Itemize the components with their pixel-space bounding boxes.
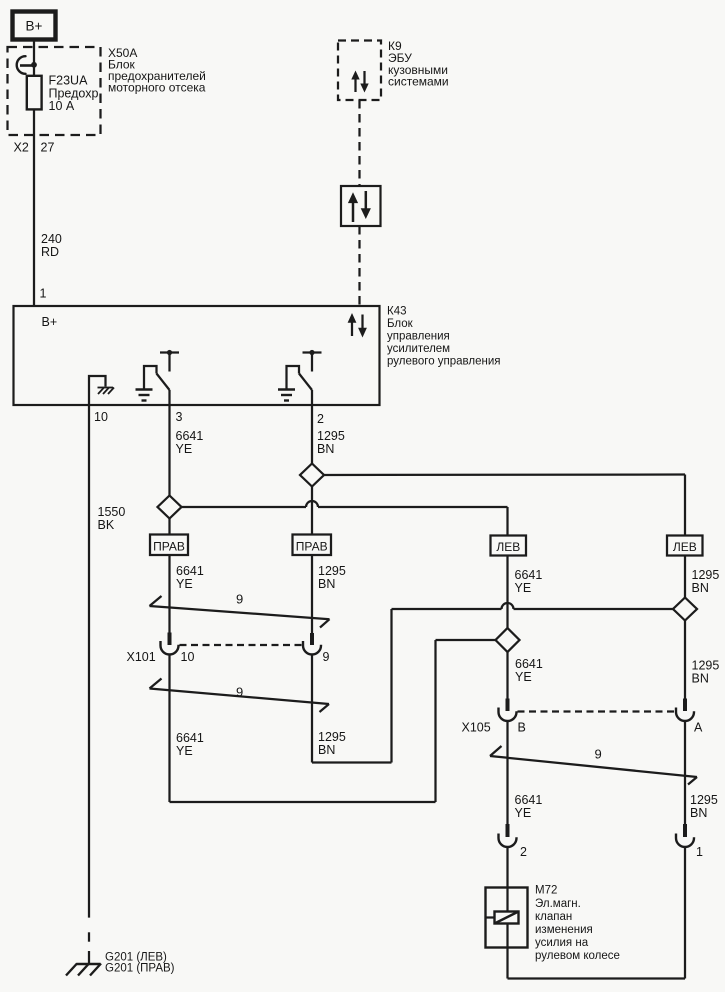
internal driver switch at pin 3 <box>136 350 180 405</box>
wire 240 RD fuse to K43 pin 1 <box>33 109 35 306</box>
svg-text:ПРАВ: ПРАВ <box>153 540 185 554</box>
data link box arrows <box>348 191 371 222</box>
svg-text:изменения: изменения <box>535 924 593 936</box>
svg-text:X2: X2 <box>14 141 29 155</box>
label K9 <box>388 39 449 89</box>
svg-text:1295: 1295 <box>692 568 720 582</box>
svg-text:240: 240 <box>41 232 62 246</box>
twisted pair mark 9 lower <box>490 746 697 785</box>
label 1295 BN <box>317 429 345 456</box>
svg-text:X101: X101 <box>127 650 156 664</box>
wire 1295 BN X101 down across and up <box>312 609 502 763</box>
twisted pair mark 9 upper <box>150 592 330 628</box>
svg-text:2: 2 <box>520 845 527 859</box>
label 1295 BN below LEV2 <box>692 568 720 595</box>
K43 data arrows <box>348 313 367 338</box>
svg-text:BN: BN <box>318 577 335 591</box>
wire splice BN to right branch <box>324 475 685 537</box>
svg-text:1295: 1295 <box>317 429 345 443</box>
svg-text:управления: управления <box>387 331 450 343</box>
svg-text:YE: YE <box>176 442 193 456</box>
steering sensor box LEV 2 <box>667 536 703 556</box>
label B+ inside K43 <box>42 315 58 329</box>
wire diamond to X105 B <box>506 652 508 699</box>
internal chassis ground at pin 10 <box>89 376 114 405</box>
dashed data wire to K43 <box>358 226 360 306</box>
label 6641 YE below LEV1 <box>515 568 543 595</box>
wire 6641 YE X101 down and across <box>170 640 497 802</box>
connector X101 pin 9 <box>303 633 321 655</box>
ground G201 <box>66 964 101 976</box>
svg-text:YE: YE <box>515 581 532 595</box>
twisted pair mark 9 middle <box>150 679 330 713</box>
wire 1550 BK dashed tail <box>88 932 90 963</box>
label 6641 YE above M72-2 <box>515 793 543 820</box>
svg-text:27: 27 <box>41 141 55 155</box>
svg-text:9: 9 <box>236 685 243 700</box>
svg-text:X105: X105 <box>462 721 491 735</box>
fuse F23UA <box>27 76 42 110</box>
svg-text:B: B <box>518 721 526 735</box>
wire diamond to X105 A <box>684 621 686 699</box>
wire splice YE to right branch with hop <box>182 501 508 536</box>
svg-text:К43: К43 <box>387 306 407 318</box>
pin number labels under K43 <box>94 410 324 426</box>
wire to M72 solenoid <box>506 847 508 888</box>
svg-text:BN: BN <box>690 806 707 820</box>
wire B+ to fuse <box>33 39 35 76</box>
label F23UA fuse value <box>49 74 102 114</box>
connector M72 pin 2 <box>499 824 517 847</box>
solenoid valve M72 <box>486 888 528 948</box>
svg-text:BN: BN <box>318 743 335 757</box>
svg-text:системами: системами <box>388 75 449 89</box>
svg-text:6641: 6641 <box>176 429 204 443</box>
svg-text:ЛЕВ: ЛЕВ <box>673 540 697 554</box>
wire X105 A to M72 pin 1 <box>684 721 686 825</box>
label X101 pins <box>127 650 330 664</box>
wire X105 B to M72 pin 2 <box>506 721 508 825</box>
svg-text:YE: YE <box>515 806 532 820</box>
svg-text:клапан: клапан <box>535 911 572 923</box>
label 1295 BN below diamond <box>692 659 720 686</box>
svg-text:F23UA: F23UA <box>49 74 89 88</box>
svg-text:2: 2 <box>317 412 324 426</box>
svg-text:BK: BK <box>98 518 115 532</box>
svg-text:9: 9 <box>323 650 330 664</box>
svg-text:6641: 6641 <box>515 793 543 807</box>
svg-text:рулевом колесе: рулевом колесе <box>535 950 620 962</box>
svg-text:10: 10 <box>94 410 108 424</box>
labels pins 2 and 1 <box>520 845 703 859</box>
svg-text:ПРАВ: ПРАВ <box>296 540 328 554</box>
label pin 1 <box>40 287 47 301</box>
svg-text:Блок: Блок <box>387 318 414 330</box>
svg-text:B+: B+ <box>26 19 43 34</box>
connector X105 pin B <box>499 699 517 722</box>
label 1295 BN below X101-9 <box>318 730 346 757</box>
svg-text:1: 1 <box>696 845 703 859</box>
svg-text:1: 1 <box>40 287 47 301</box>
svg-text:6641: 6641 <box>176 731 204 745</box>
dashed data wire K9 to splice box <box>358 100 360 186</box>
internal driver switch at pin 2 <box>278 350 322 405</box>
battery B+ terminal box <box>13 12 56 40</box>
label 6641 YE below X101-10 <box>176 731 204 758</box>
steering sensor box PRAV 1 <box>150 535 188 556</box>
wire 6641 YE pin 3 to splice <box>168 405 170 496</box>
wire hop over LEV1 wire <box>502 603 674 609</box>
splice diamond on BN wire <box>300 464 324 487</box>
svg-text:A: A <box>694 721 703 735</box>
svg-text:10 А: 10 А <box>49 99 75 113</box>
connector X2 pin symbol <box>17 56 37 74</box>
wire LEV2 down <box>684 556 686 598</box>
wire YE diamond to PRAV box <box>168 519 170 536</box>
wire PRAV1 to X101 pin 10 <box>168 555 170 633</box>
svg-text:1295: 1295 <box>692 659 720 673</box>
wire 1550 BK pin 10 down <box>88 405 90 918</box>
label X105 pins <box>462 721 704 735</box>
splice diamond on LEV1 wire <box>496 628 520 652</box>
svg-text:6641: 6641 <box>515 657 543 671</box>
svg-text:6641: 6641 <box>515 568 543 582</box>
steering sensor box PRAV 2 <box>293 535 332 556</box>
svg-text:усилителем: усилителем <box>387 343 450 355</box>
connector X105 pin A <box>676 699 694 722</box>
label 1295 BN above M72-1 <box>690 793 718 820</box>
label K43 <box>387 306 501 368</box>
svg-text:1295: 1295 <box>690 793 718 807</box>
label X50A <box>108 46 206 95</box>
svg-text:9: 9 <box>236 592 243 607</box>
splice diamond on YE wire <box>158 496 182 519</box>
svg-text:1550: 1550 <box>98 505 126 519</box>
label connector X2 pin 27 <box>14 141 55 155</box>
svg-text:1295: 1295 <box>318 564 346 578</box>
svg-text:BN: BN <box>317 442 334 456</box>
svg-text:М72: М72 <box>535 885 557 897</box>
svg-text:YE: YE <box>176 744 193 758</box>
svg-text:моторного отсека: моторного отсека <box>108 81 206 95</box>
svg-text:рулевого управления: рулевого управления <box>387 356 501 368</box>
label G201 <box>105 952 175 975</box>
label wire 1550 BK <box>98 505 126 532</box>
splice diamond on LEV2 wire <box>673 598 697 621</box>
K9 data arrows <box>351 71 368 93</box>
steering sensor box LEV 1 <box>491 536 527 556</box>
svg-text:9: 9 <box>595 747 602 762</box>
svg-text:BN: BN <box>692 672 709 686</box>
fuse box X50A dashed outline <box>8 47 101 135</box>
svg-text:YE: YE <box>176 577 193 591</box>
connector X101 pin 10 <box>161 633 179 655</box>
label wire 240 RD <box>41 232 62 259</box>
module K9 dashed box <box>338 41 381 101</box>
svg-text:Эл.магн.: Эл.магн. <box>535 898 581 910</box>
svg-text:YE: YE <box>515 670 532 684</box>
connector M72 pin 1 <box>676 824 694 847</box>
wire PRAV2 to X101 pin 9 <box>311 555 313 633</box>
data link connector box <box>341 186 381 226</box>
svg-text:B+: B+ <box>42 315 58 329</box>
wire LEV1 down <box>506 556 508 629</box>
ECU K43 box <box>14 306 380 405</box>
svg-text:G201 (ПРАВ): G201 (ПРАВ) <box>105 963 175 975</box>
label M72 <box>535 885 620 963</box>
X105 harness dashed link <box>518 710 676 712</box>
wire BN diamond to PRAV box <box>311 487 313 536</box>
label 1295 BN below PRAV2 <box>318 564 346 591</box>
svg-text:3: 3 <box>176 410 183 424</box>
svg-text:усилия на: усилия на <box>535 937 589 949</box>
label 6641 YE below diamond <box>515 657 543 684</box>
wire M72 bottom return <box>508 847 686 979</box>
svg-text:1295: 1295 <box>318 730 346 744</box>
svg-text:10: 10 <box>181 650 195 664</box>
svg-text:RD: RD <box>41 245 59 259</box>
label 6641 YE below PRAV1 <box>176 564 204 591</box>
wire 1295 BN pin 2 to splice <box>311 405 313 464</box>
svg-text:BN: BN <box>692 581 709 595</box>
X101 harness dashed link <box>180 644 303 646</box>
svg-text:ЛЕВ: ЛЕВ <box>496 540 520 554</box>
svg-text:6641: 6641 <box>176 564 204 578</box>
label 6641 YE <box>176 429 204 456</box>
